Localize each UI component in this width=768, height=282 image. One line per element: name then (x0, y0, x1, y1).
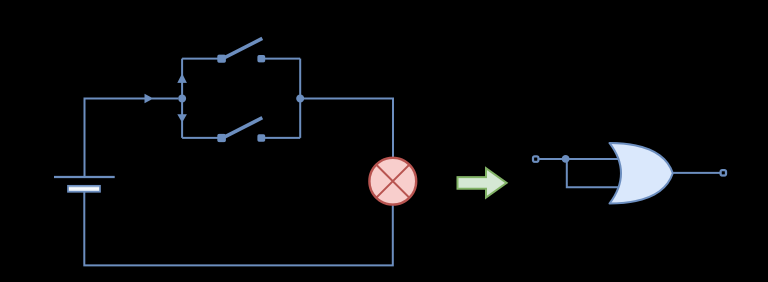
node: input junction (562, 155, 570, 163)
wire: switch block right rail (299, 59, 301, 138)
wire: junction right to lamp top (300, 99, 393, 171)
wire: top branch left segment (182, 58, 219, 60)
wire: bottom branch right segment (263, 137, 300, 139)
gate output terminal (721, 170, 726, 175)
node: left junction (178, 95, 186, 103)
switch S2 lever (224, 118, 263, 138)
switch S1 lever (224, 38, 263, 58)
wire: switch block left rail (181, 59, 183, 138)
switch S1 right terminal (257, 55, 265, 62)
node: right junction (296, 95, 304, 103)
wire: input to OR gate top input (540, 158, 631, 160)
battery BT1 positive plate (54, 176, 115, 178)
wire: branch down to OR gate bottom input (567, 159, 630, 187)
block arrow (maps-to) (458, 168, 507, 197)
battery BT1 negative plate (68, 186, 100, 192)
lamp L1 cross (376, 165, 409, 198)
arrowhead down on left rail (177, 114, 187, 122)
wire: battery positive up and right to switch network (85, 99, 179, 177)
arrowhead up on left rail (177, 73, 187, 83)
OR gate U1 (610, 143, 673, 204)
gate input terminal (533, 156, 538, 161)
wire: OR gate output (663, 172, 720, 174)
switch S2 left terminal (217, 134, 226, 142)
lamp L1 body (369, 158, 416, 205)
wire: bottom branch left segment (182, 137, 219, 139)
switch S2 right terminal (257, 134, 265, 141)
wire: top branch right segment (263, 58, 300, 60)
wire: lamp bottom, bottom rail, up to battery negative (84, 190, 393, 265)
switch S1 left terminal (217, 55, 226, 63)
arrowhead current direction right (145, 94, 154, 104)
